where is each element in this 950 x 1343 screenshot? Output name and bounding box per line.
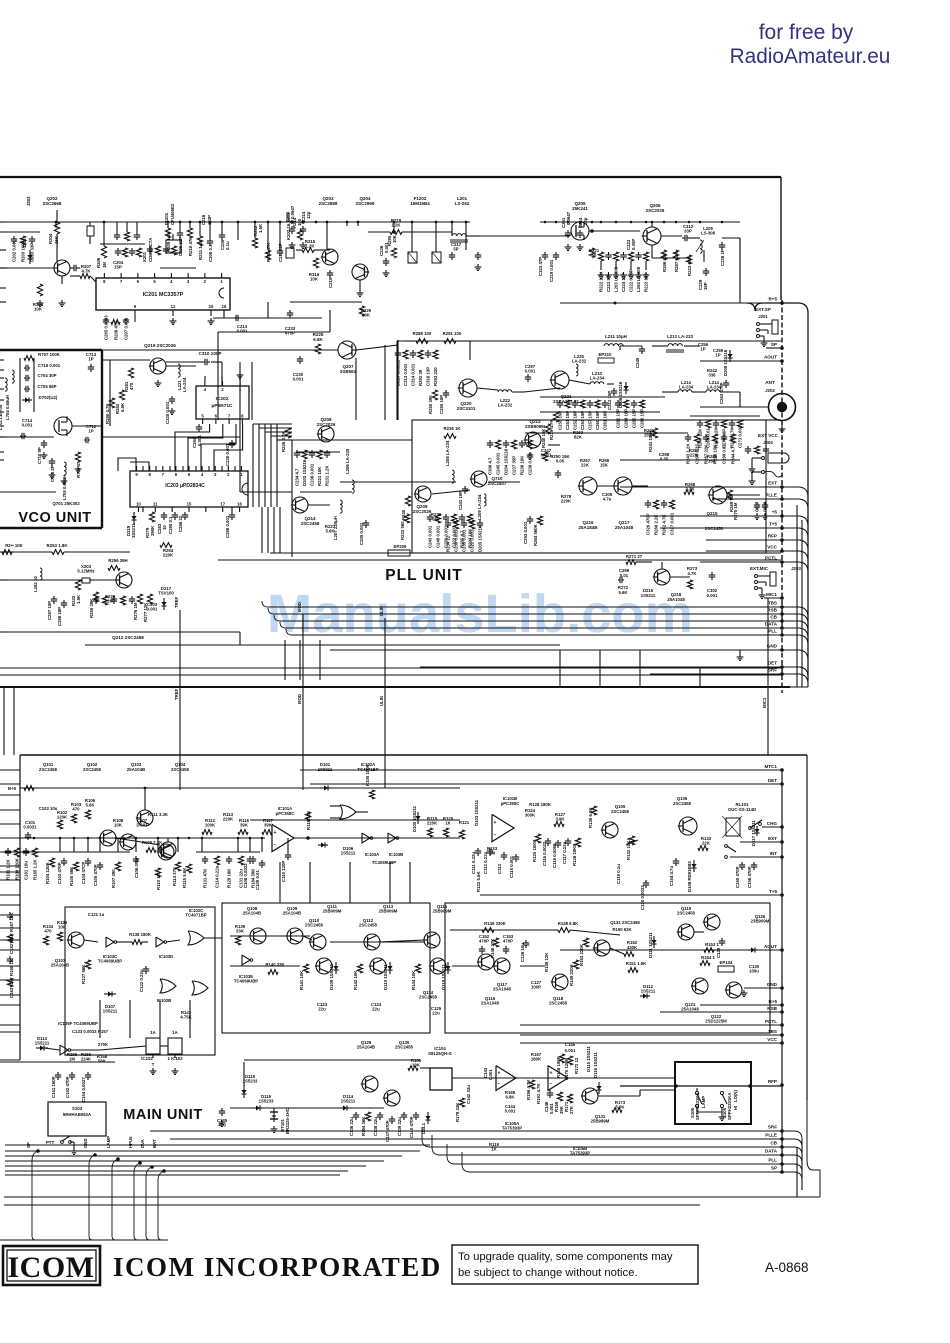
capacitor C211 22P [279,248,281,251]
transistor Q108 [250,928,266,944]
transistor Q101s2 [137,810,153,826]
wire SP link [766,347,782,349]
box audio section [445,903,770,1033]
resistor R143 10K [357,964,362,973]
svg-text:μPC358C: μPC358C [276,811,295,816]
svg-text:B+5: B+5 [8,786,17,791]
svg-text:C181 10u: C181 10u [24,861,29,880]
wire det vertical [699,667,701,687]
wire bus ULIN vertical [384,618,386,755]
node SP bottom [780,1170,784,1174]
svg-text:LA-234: LA-234 [182,377,187,392]
connector J204 plug symbol [768,453,789,463]
svg-text:D206 1S5216: D206 1S5216 [618,381,623,408]
diode D108 RD91EB3 [693,860,695,864]
svg-text:7: 7 [120,279,123,284]
svg-text:25A1048: 25A1048 [681,1007,699,1012]
wire to right rail [782,628,808,638]
svg-text:R233 560: R233 560 [400,521,405,540]
part R218 4.7K [136,248,141,257]
svg-text:C155 470P: C155 470P [735,866,740,888]
part R293 220 [433,350,438,359]
wire IC201 pin12 down [134,316,136,322]
svg-text:CB: CB [770,1141,777,1146]
svg-text:X201: X201 [142,251,147,262]
svg-text:MOD: MOD [297,694,302,704]
svg-text:25A184B: 25A184B [578,525,598,530]
wire row2 long [290,301,362,303]
wire ext feed [620,459,740,461]
svg-text:C238 0.001: C238 0.001 [528,452,533,475]
part R234 22 [447,520,449,523]
svg-text:C126 10u: C126 10u [520,943,525,962]
svg-text:Q219 2SC2026: Q219 2SC2026 [144,343,176,348]
svg-text:2SB909M: 2SB909M [525,424,545,429]
svg-text:DET: DET [768,661,777,666]
wire CB curve [782,1147,802,1155]
svg-text:C182 47u: C182 47u [9,935,14,954]
wire left stubs pll [0,267,8,269]
node CHG [780,825,784,829]
capacitor C205 0.1u [221,232,223,235]
resistor R232 1.5K [75,580,80,590]
svg-text:LAMP: LAMP [701,1096,706,1108]
svg-text:15K: 15K [600,462,609,467]
svg-text:−: − [274,842,277,848]
node RFP [780,538,784,542]
capacitor C255 10P [445,390,447,393]
svg-text:PLLE: PLLE [765,493,777,498]
svg-text:R223 100: R223 100 [687,257,692,276]
svg-text:C228 1P: C228 1P [720,249,725,266]
svg-text:R256 39H: R256 39H [108,558,127,563]
diode D118 [243,1086,245,1090]
resistor R204 16K [54,222,59,234]
transistor Q220 [459,379,477,397]
capacitor C155 470P [741,862,743,865]
svg-text:R105 100K: R105 100K [365,763,370,786]
svg-text:C131 22u: C131 22u [239,869,244,888]
part C222 0.35P [628,252,633,261]
part C237 35P [511,440,516,449]
wire left stubs main [0,794,20,796]
svg-text:6: 6 [175,472,178,477]
wire bottom extra buses [5,1144,430,1146]
svg-text:C326 470P: C326 470P [646,513,651,535]
svg-text:HPU5: HPU5 [128,1136,133,1148]
svg-text:C221 8P: C221 8P [606,275,611,292]
inductor L209 LA-234 [484,494,486,506]
wire RFP stub [706,539,782,541]
connector J204 switch contact [762,471,765,474]
svg-text:1.2K: 1.2K [391,222,401,227]
svg-text:R129 18K: R129 18K [227,868,232,888]
svg-text:IC103A: IC103A [365,852,380,857]
svg-text:22u: 22u [432,1010,440,1015]
resistor R105 56K [73,862,78,871]
capacitor C705 56P [24,388,26,390]
resistor R144 10K [415,964,420,973]
wire to right rail [782,487,808,497]
part D205 1S5216 [479,520,481,523]
part C224 12P [623,252,625,255]
svg-text:220K: 220K [561,498,572,503]
resistor R279 390K [149,512,154,522]
box VCO unit border [0,349,102,351]
wire logic bottom rail [0,1061,115,1063]
svg-text:11: 11 [153,502,158,507]
ground Q202 bias [61,300,63,303]
svg-text:0.001: 0.001 [525,368,536,373]
wire PLLE curve [782,1139,802,1147]
op-amp IC101A [272,824,294,851]
transistor Q218 [654,569,670,585]
svg-text:T+5: T+5 [769,889,777,894]
svg-text:C710 9P: C710 9P [37,447,42,464]
svg-text:2SC2458: 2SC2458 [39,767,58,772]
part R187 10K [9,912,11,915]
transistor Q217 [614,477,632,495]
wire ic104 rail [420,1067,430,1069]
svg-text:430K: 430K [627,945,638,950]
resistor R207 4.7K [80,274,90,279]
part C298 0.35 [694,434,699,443]
svg-text:C121 1u: C121 1u [88,912,105,917]
svg-text:R240 15K: R240 15K [541,428,546,448]
transistor Q202 [54,260,70,276]
capacitor C323 47P [544,252,546,255]
node T+5 [780,526,784,530]
part R257 39K [95,596,97,599]
diode D114 [340,1107,343,1109]
part R246 22K [699,420,701,423]
svg-text:16: 16 [237,502,242,507]
svg-text:L704 0.68uH: L704 0.68uH [5,395,10,420]
svg-text:10K: 10K [412,1062,421,1067]
svg-text:GND: GND [767,982,778,987]
svg-text:C224 12P: C224 12P [621,273,626,292]
part R236 10K [521,440,523,443]
wire row A vert drops [59,838,61,852]
node +5 [780,514,784,518]
part C239 0.001 [453,520,458,529]
node EXTm [780,840,784,844]
svg-text:D205 1S5216: D205 1S5216 [478,525,483,552]
svg-text:2SA1048: 2SA1048 [481,1001,500,1006]
svg-text:MIC1: MIC1 [766,592,777,597]
capacitor C217 5P [451,252,453,255]
diode D209 1S5216 [729,350,731,354]
capacitor C288 0.001 [231,512,233,515]
svg-text:25B909M: 25B909M [433,909,452,914]
wire left border continuation [3,687,5,755]
wire r253 rail [0,551,52,553]
part C131 22u [238,856,243,865]
diode D119s [252,1107,256,1109]
resistor R288 100 [416,339,428,344]
wire SRF curve [782,1131,802,1139]
wire q208 cluster rails [296,451,340,453]
part C203 33P [31,236,33,239]
svg-text:C230 0.001: C230 0.001 [225,443,230,466]
resistor R250 sym [542,452,547,461]
svg-text:0.001: 0.001 [293,377,304,382]
part R268 2.2K [653,500,658,509]
svg-text:R208 470: R208 470 [114,321,119,340]
capacitor C204 15P [70,267,74,269]
resistor R281 470 [128,368,133,378]
svg-text:DATA: DATA [765,622,778,627]
wire main row A feedback [250,819,460,821]
capacitor C105 [99,862,101,865]
svg-text:16: 16 [222,304,227,309]
wire to right rail [782,540,808,550]
transistor Q115s [430,958,446,974]
wire dashed connector bus vertical x782 (PLL) [781,300,783,693]
svg-text:224K: 224K [81,1056,92,1061]
svg-text:C154 0.0027: C154 0.0027 [81,1077,86,1102]
op-amp IC105A [496,1066,516,1091]
svg-text:2SC2458: 2SC2458 [83,767,102,772]
wire tref drop to main [179,755,181,790]
wire tbsm [520,1034,782,1036]
svg-text:C151 160P: C151 160P [51,1076,56,1098]
svg-text:6.8K: 6.8K [505,1094,515,1099]
svg-text:R104 120K: R104 120K [45,861,50,884]
capacitor C288b 18P [63,600,65,603]
svg-text:R185 1.2K: R185 1.2K [33,859,38,880]
svg-text:R172 12: R172 12 [574,1057,579,1074]
wire bus CB bend [274,615,280,621]
svg-text:C306 4.7: C306 4.7 [488,457,493,475]
svg-text:R235 1K: R235 1K [444,426,462,431]
wire R+5 long [560,302,690,304]
resistor R209 1.5K [165,228,170,238]
wire nested bus from IC203 [261,507,263,553]
svg-text:+: + [550,1070,553,1076]
part C210 47P [117,248,119,251]
part L203 LS-308 [613,252,618,261]
svg-text:R276 1M: R276 1M [133,602,138,620]
wire to right rail [782,551,808,561]
wire bottom bus curves right [422,1127,430,1147]
gate IC102C [188,931,204,945]
inverter IC103D [156,937,164,947]
part L204 LS-308 [638,252,640,255]
svg-text:CHG: CHG [767,821,778,826]
wire SP curve [782,1172,802,1180]
wire q207 to pll [356,345,398,350]
part R277 12K [131,596,133,599]
wire nested bundle horiz [253,423,292,425]
svg-text:LA-234: LA-234 [679,385,694,390]
wire to IC201 [70,275,80,277]
wire bottom collect curves [32,1236,162,1240]
svg-text:T: T [152,1062,155,1067]
svg-text:4.7K: 4.7K [687,571,697,576]
svg-text:470: 470 [129,382,134,390]
svg-text:R170 120K: R170 120K [564,1057,569,1080]
capacitor C111 0.22u [477,848,479,851]
diode D101 [320,787,324,789]
svg-text:0.1u: 0.1u [225,241,230,250]
wire ic203 bottom [142,507,144,512]
svg-text:R191 4.7K: R191 4.7K [536,1083,541,1104]
svg-text:R131 47K: R131 47K [203,868,208,888]
wire int [730,856,782,858]
svg-text:C219 0.001: C219 0.001 [549,259,554,282]
wire pll column feeds [620,486,700,488]
capacitor C283 10 [163,512,165,515]
svg-text:C288 18P: C288 18P [57,607,62,626]
svg-text:180K: 180K [531,1057,542,1062]
svg-text:R151 1.5K: R151 1.5K [626,961,647,966]
resistor R107 390 [115,862,120,871]
svg-text:EXT.SP: EXT.SP [755,307,771,312]
svg-text:LAMP: LAMP [106,1136,111,1148]
wire gndm [744,987,782,989]
svg-text:15: 15 [187,502,192,507]
svg-text:2SC2026: 2SC2026 [413,509,432,514]
transistor Q102s [100,830,116,846]
transistor Q204 [352,264,368,280]
svg-text:R292 39: R292 39 [418,369,423,386]
svg-text:0.001: 0.001 [707,593,718,598]
part C265 0.0033 [105,318,107,320]
part R285 4.7 [461,514,463,517]
part R208 470 [111,320,120,325]
part R217 1K [122,248,127,257]
wire pll mid bottom line1 [270,552,781,554]
part C243 0.001 [429,514,431,517]
box main unit right border [806,755,808,1100]
svg-text:VCO UNIT: VCO UNIT [18,510,91,526]
svg-text:25A1048: 25A1048 [615,525,634,530]
transistor Q104s2 [160,842,176,858]
node PLLE [780,497,784,501]
wire rf bus [284,221,316,223]
wire fet drain [0,436,54,438]
wire rfpm [620,1085,782,1087]
resistor R215 1.2K [302,248,314,253]
wire q206 out [661,235,682,237]
svg-text:SP: SP [771,342,777,347]
switch S103 [725,845,728,848]
wire ptt gnd [73,1142,75,1148]
wire q218 rail [636,561,652,563]
transistor Q215 [709,486,727,504]
svg-text:PCTL: PCTL [765,1019,777,1024]
wire squelch rails [230,935,310,937]
capacitor C136 22u [355,1112,357,1115]
node CB [780,619,784,623]
part R260 2.2K [124,232,129,241]
part R101 1.2K [7,848,9,851]
capacitor C215 [329,270,331,273]
part C313 0.001 [403,350,408,359]
svg-text:16M15B4: 16M15B4 [410,201,430,206]
svg-text:1: 1 [220,279,223,284]
svg-text:R291 100: R291 100 [443,331,462,336]
wire bus DATA [286,627,782,629]
svg-text:TC4069UBP: TC4069UBP [372,860,396,865]
svg-text:C286 22: C286 22 [178,515,183,532]
resistor R213 47K [265,250,270,260]
svg-text:D103 1S5211: D103 1S5211 [474,799,479,826]
wire drop SP [32,1151,38,1236]
resistor R276 1M [137,594,142,604]
wire q209 rail [432,490,470,494]
svg-text:2SC2458: 2SC2458 [673,801,692,806]
svg-text:0.05: 0.05 [556,458,565,463]
relay RL101 coil [726,818,740,836]
node SRF [780,672,784,676]
svg-text:1A: 1A [150,1030,156,1035]
svg-text:μPB571C: μPB571C [211,403,233,409]
svg-text:RSB: RSB [767,1006,777,1011]
svg-text:L282 10: L282 10 [33,576,38,592]
wire vco stack left [19,358,21,412]
svg-text:R144 10K: R144 10K [411,970,416,990]
capacitor C286 22 [184,512,186,515]
capacitor C287 10P [53,596,55,599]
svg-text:R141 10K: R141 10K [299,970,304,990]
svg-text:1M: 1M [69,1056,75,1061]
resistor R271 27 [626,560,636,565]
svg-text:C243 0.001: C243 0.001 [428,525,433,548]
svg-text:22K: 22K [581,462,590,467]
part C257 15P [589,400,591,403]
svg-text:1M: 1M [102,262,107,268]
svg-text:470P: 470P [285,331,295,336]
transistor Q214 [292,497,308,513]
svg-text:GND: GND [83,1138,88,1148]
wire q205 rail [540,235,570,237]
wire q212 rail1 [0,631,240,633]
node RFPm [780,1083,784,1087]
svg-text:25A104B: 25A104B [243,911,261,916]
node AOUT [780,359,784,363]
node DATA bottom [780,1153,784,1157]
wire IC201 pin9 gnd [172,318,174,321]
svg-text:2SC2458: 2SC2458 [359,923,378,928]
svg-text:R221 10K: R221 10K [317,466,322,486]
connector ANT J202 coax circle [769,394,796,421]
part C322 0.001 [469,520,474,529]
wire bus drops left [284,640,286,680]
svg-text:10K: 10K [58,924,67,929]
capacitor C214 12p [579,230,581,233]
potentiometer arrow R132 [626,840,638,845]
node R+5m [780,1003,784,1007]
capacitor C710 9P [43,440,45,443]
wire main right bundle2 [796,1147,798,1197]
wire to right rail [782,650,808,660]
svg-text:56: 56 [592,252,597,257]
wire pll top rail [398,340,470,342]
svg-text:3: 3 [214,472,217,477]
svg-text:R206: R206 [96,257,101,268]
IC U-IC201 MC3357P [96,278,230,310]
wire bus RSB bend [268,608,274,614]
wire bus DATA bottom [440,1154,782,1156]
wire main bottom rail 1 [4,1196,820,1198]
box lamp switch S105/S106 [675,1062,751,1124]
svg-text:C249 0.001: C249 0.001 [436,525,441,548]
svg-text:R132 10KA: R132 10KA [626,838,631,860]
part R276 1M [120,596,125,605]
wire right border vertical at x781 [780,177,782,300]
